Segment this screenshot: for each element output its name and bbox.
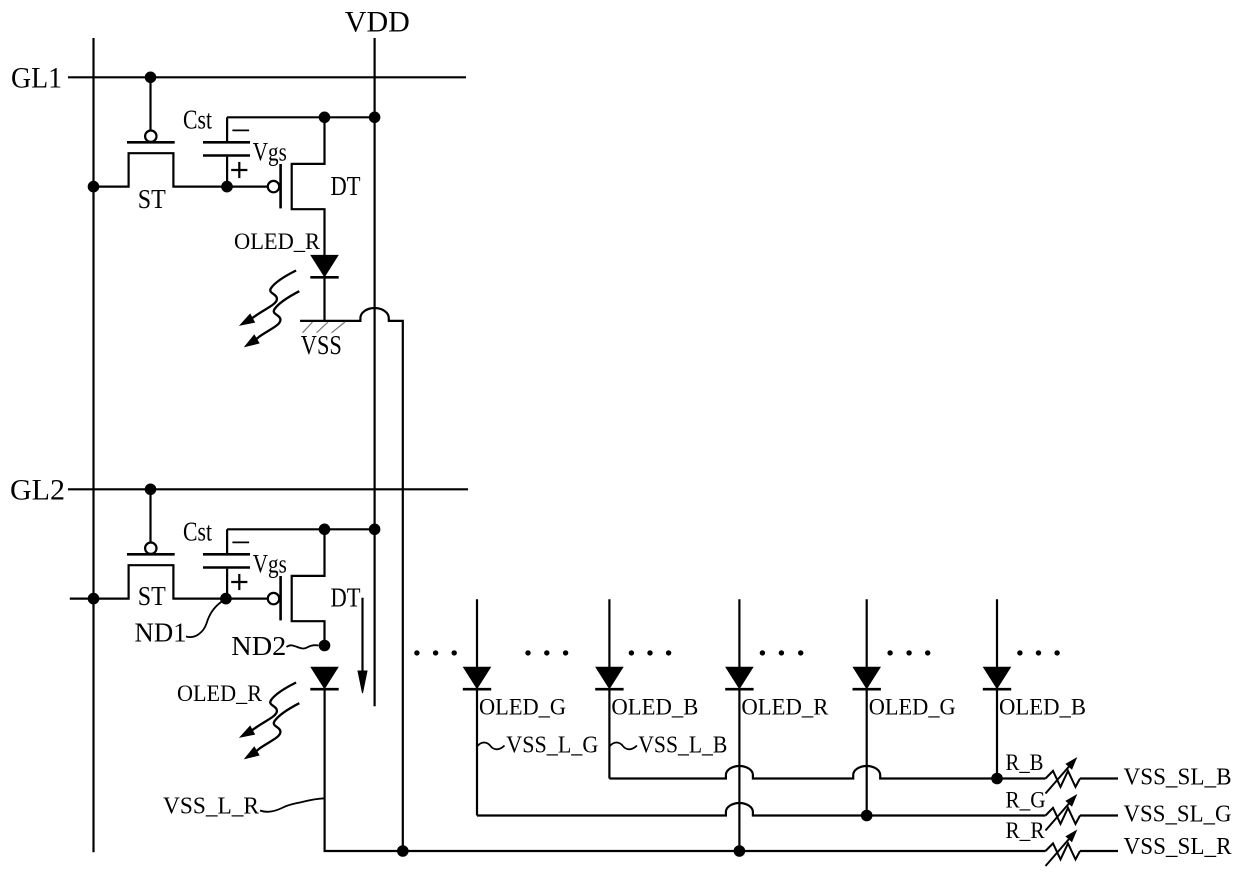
wire OLED_R cathode to VSS row1: [323, 277, 325, 321]
wire VSS_SL_G bus with hop over column 3: [477, 803, 1046, 816]
node junction data-line/ST row1: [88, 181, 100, 193]
leader tilde VSS_L_B: [609, 743, 637, 750]
svg-text:Vgs: Vgs: [253, 138, 287, 167]
label plus (Cst bottom plate) row1: [231, 162, 247, 178]
svg-text:GL1: GL1: [11, 62, 62, 95]
diode OLED_G column 4: [853, 667, 881, 689]
resistor R_G zigzag: [1046, 808, 1081, 824]
transistor DT row2 channel: [292, 529, 325, 645]
resistor R_R zigzag: [1046, 843, 1081, 859]
node junction column4/VSS_SL_G: [861, 810, 873, 822]
transistor DT row1 channel: [292, 117, 325, 255]
wire anode line column 3: [738, 599, 740, 667]
transistor DT row2 gate bubble: [268, 593, 279, 604]
node junction GL2/ST gate tap: [145, 484, 157, 496]
wire cathode column 4: [866, 689, 868, 815]
svg-text:OLED_G: OLED_G: [479, 695, 566, 720]
svg-text:Cst: Cst: [183, 104, 212, 134]
svg-text:ST: ST: [138, 184, 166, 214]
node junction column3/VSS_SL_R: [734, 845, 746, 857]
node junction VSS_L_R/bus: [397, 845, 409, 857]
wire OLED_R row2 cathode down + VSS_SL_R bus: [325, 689, 1046, 851]
svg-text:GL2: GL2: [10, 474, 65, 507]
wire cathode column 1: [476, 689, 478, 815]
wire VDD vertical line: [374, 38, 376, 706]
light emission arrows row1: [239, 271, 299, 348]
diode OLED_B column 2: [595, 667, 623, 689]
ellipsis dots between columns: [414, 650, 1060, 655]
node junction rail/VDD row1: [369, 112, 381, 124]
wire data line (left vertical): [92, 38, 94, 852]
transistor ST row2 channel and wire to node N1: [70, 565, 268, 598]
svg-text:Vgs: Vgs: [253, 550, 287, 579]
leader tilde VSS_L_G: [477, 743, 505, 750]
wire cathode column 3: [738, 689, 740, 851]
wire gate line GL2: [68, 488, 468, 490]
resistor R_G arrow: [1046, 794, 1078, 831]
svg-text:VSS_L_R: VSS_L_R: [163, 794, 259, 820]
wire VSS_SL_B bus right of resistor: [1080, 777, 1118, 779]
wire anode line column 5: [996, 599, 998, 667]
leader VSS_L_R to cathode wire: [260, 798, 325, 812]
label minus (Cst top plate) row1: [232, 129, 249, 131]
transistor ST row2 gate bar: [127, 553, 175, 556]
node junction rail/VDD row2: [369, 524, 381, 536]
leader ND2 to node N2: [287, 645, 319, 648]
svg-text:VSS: VSS: [301, 330, 342, 360]
node junction rail/DT-drain row1: [319, 112, 331, 124]
wire VSS_SL_B bus with hops over columns 3 and 4: [609, 766, 1045, 779]
diode OLED_B column 5: [983, 667, 1011, 689]
ground VSS electrode bar + wire hop over VDD + VSS_L_R vertical: [300, 308, 403, 851]
wire gate line GL1: [68, 76, 466, 78]
svg-text:OLED_B: OLED_B: [611, 695, 698, 720]
diode OLED_R row2: [310, 667, 338, 689]
svg-text:OLED_R: OLED_R: [177, 681, 263, 706]
label plus (Cst bottom plate) row2: [231, 574, 247, 590]
wire anode line column 2: [608, 599, 610, 667]
diode OLED_R row1: [310, 255, 338, 277]
diode OLED_R column 3: [725, 667, 753, 689]
node N1 junction ST/Cst/DT-gate row1: [221, 181, 233, 193]
wire VSS_SL_G bus right of resistor: [1080, 814, 1118, 816]
transistor ST row1 gate bubble: [145, 131, 156, 142]
resistor R_B zigzag: [1046, 771, 1081, 787]
svg-text:OLED_R: OLED_R: [234, 229, 321, 254]
wire ST gate tap row1: [149, 77, 151, 130]
transistor DT row1 gate bubble: [268, 181, 279, 192]
transistor DT row2 gate bar: [279, 576, 282, 620]
wire ST gate tap row2: [149, 489, 151, 542]
svg-text:OLED_B: OLED_B: [999, 695, 1086, 720]
svg-text:ND1: ND1: [135, 618, 187, 648]
svg-text:ST: ST: [138, 581, 166, 611]
light emission arrows row2: [239, 683, 299, 760]
capacitor Cst row1: [203, 117, 250, 186]
wire top rail (VDD to Cst/DT) row2: [227, 528, 375, 530]
wire anode line column 1: [476, 599, 478, 667]
capacitor Cst row2: [203, 529, 250, 598]
transistor ST row1 channel and wire to node N1: [94, 153, 268, 186]
node N1 junction ST/Cst/DT-gate row2: [220, 593, 232, 605]
svg-text:DT: DT: [331, 583, 361, 613]
transistor DT row1 gate bar: [279, 164, 282, 208]
svg-text:R_G: R_G: [1006, 788, 1046, 813]
svg-text:OLED_R: OLED_R: [741, 695, 829, 720]
wire VSS_SL_R bus right of resistor: [1080, 850, 1118, 852]
label minus (Cst top plate) row2: [232, 541, 249, 543]
svg-text:VDD: VDD: [345, 6, 410, 39]
node N2 junction DT-source/OLED row2: [319, 640, 331, 652]
svg-text:VSS_L_G: VSS_L_G: [506, 733, 598, 759]
ground VSS hatching: [303, 322, 346, 333]
svg-text:VSS_SL_R: VSS_SL_R: [1124, 834, 1232, 860]
svg-text:VSS_SL_G: VSS_SL_G: [1124, 802, 1232, 828]
resistor R_B arrow: [1046, 757, 1078, 794]
diode OLED_G column 1: [463, 667, 491, 689]
svg-text:DT: DT: [331, 171, 361, 201]
node junction data-line/ST row2: [88, 593, 100, 605]
wire top rail (VDD to Cst/DT) row1: [227, 116, 375, 118]
current direction arrow beside DT row2: [358, 598, 367, 693]
resistor R_R arrow: [1046, 830, 1078, 867]
svg-text:ND2: ND2: [231, 631, 286, 661]
wire cathode column 5: [996, 689, 998, 778]
node junction column5/VSS_SL_B: [991, 773, 1003, 785]
svg-text:VSS_SL_B: VSS_SL_B: [1124, 765, 1232, 791]
svg-text:R_R: R_R: [1006, 818, 1046, 843]
svg-text:VSS_L_B: VSS_L_B: [638, 733, 727, 759]
leader ND1 to node N1: [186, 600, 224, 637]
transistor ST row1 gate bar: [127, 141, 175, 144]
node junction GL1/ST gate tap: [145, 72, 157, 84]
transistor ST row2 gate bubble: [145, 543, 156, 554]
svg-text:Cst: Cst: [183, 516, 212, 546]
wire anode line column 4: [866, 599, 868, 667]
wire cathode column 2: [608, 689, 610, 778]
node junction rail/DT-drain row2: [319, 524, 331, 536]
svg-text:OLED_G: OLED_G: [869, 695, 956, 720]
svg-text:R_B: R_B: [1006, 750, 1044, 775]
